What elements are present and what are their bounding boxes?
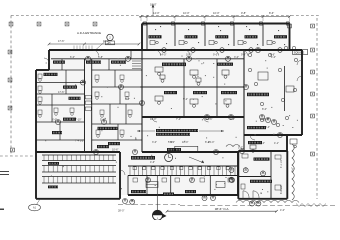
svg-text:17'-6": 17'-6" (58, 40, 64, 43)
svg-text:10'-0": 10'-0" (186, 54, 192, 57)
svg-text:9'-4": 9'-4" (265, 126, 270, 129)
svg-text:28'-0": 28'-0" (118, 210, 124, 213)
svg-text:4'-0": 4'-0" (280, 209, 285, 212)
svg-text:10'-0": 10'-0" (182, 141, 188, 144)
svg-text:5'-8": 5'-8" (98, 56, 103, 59)
svg-text:10'-0": 10'-0" (213, 11, 220, 15)
svg-text:5'-2": 5'-2" (183, 98, 188, 101)
svg-text:5'-6": 5'-6" (168, 141, 173, 144)
svg-text:3'-0": 3'-0" (152, 141, 157, 144)
svg-text:16'-0": 16'-0" (150, 118, 156, 121)
svg-text:17'-6": 17'-6" (58, 91, 64, 94)
svg-text:+45: +45 (107, 42, 112, 45)
svg-text:9'-8": 9'-8" (241, 54, 246, 57)
svg-text:5'-0": 5'-0" (238, 147, 243, 150)
svg-text:6'-6 1/2": 6'-6 1/2" (280, 185, 283, 194)
svg-text:4'-1 1/2": 4'-1 1/2" (280, 159, 283, 168)
svg-text:14'-0": 14'-0" (160, 54, 166, 57)
svg-text:8'-0": 8'-0" (52, 119, 57, 122)
svg-text:10'-6": 10'-6" (112, 149, 118, 152)
svg-text:4'-0": 4'-0" (260, 142, 265, 145)
svg-text:4'-0": 4'-0" (271, 56, 276, 59)
svg-text:14'-0": 14'-0" (153, 11, 160, 15)
svg-text:8'-4": 8'-4" (205, 141, 210, 144)
svg-text:9'-0": 9'-0" (230, 118, 235, 121)
svg-text:A.D.A ENTRANCE: A.D.A ENTRANCE (77, 31, 101, 35)
svg-text:6'-0": 6'-0" (70, 56, 75, 59)
svg-text:9'-8": 9'-8" (241, 11, 246, 15)
svg-text:7'-4 1/2": 7'-4 1/2" (75, 140, 84, 143)
svg-text:7'-4": 7'-4" (176, 118, 181, 121)
svg-text:7'-10": 7'-10" (75, 119, 81, 122)
svg-text:4'-1": 4'-1" (274, 142, 279, 145)
svg-text:5'-4": 5'-4" (100, 119, 105, 122)
svg-text:5'-2": 5'-2" (264, 118, 269, 121)
svg-text:38'-6" O.A.: 38'-6" O.A. (215, 207, 230, 211)
svg-text:3'-0": 3'-0" (234, 56, 239, 59)
svg-text:10'-0": 10'-0" (183, 11, 190, 15)
svg-text:8'-0": 8'-0" (262, 108, 267, 111)
svg-text:SQUARE: SQUARE (294, 51, 305, 54)
svg-text:9'-0": 9'-0" (213, 54, 218, 57)
svg-text:8'-6": 8'-6" (269, 11, 274, 15)
svg-text:12'-6": 12'-6" (206, 118, 212, 121)
svg-text:4'-6": 4'-6" (150, 161, 155, 164)
svg-text:9'-2": 9'-2" (125, 98, 130, 101)
